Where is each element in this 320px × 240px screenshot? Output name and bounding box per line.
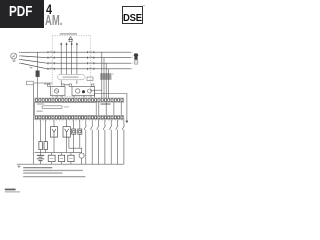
relay contact box R2: [58, 155, 64, 161]
label hexagon: [57, 75, 85, 80]
fuse holder right: [44, 142, 48, 150]
relay contact box R1: [48, 155, 55, 161]
negative bus: [17, 163, 124, 165]
title line 2: [45, 12, 62, 29]
logo TM mark: [143, 5, 145, 7]
pin 2: [66, 45, 68, 75]
notes text line 1: [23, 167, 52, 168]
arrowhead down: [126, 121, 129, 124]
wire phase L1 left segment: [20, 51, 47, 53]
neutral drop to fuse: [37, 52, 39, 71]
generator label text: [12, 60, 15, 61]
CT block: [100, 73, 111, 80]
relay contact box R3: [68, 155, 74, 161]
wire phase L1 main run: [47, 51, 131, 53]
relay wiring: [44, 80, 95, 98]
sender circle: [79, 153, 84, 158]
module text left: [37, 103, 44, 104]
aux box A2: [78, 129, 82, 134]
DSE logo: [122, 6, 144, 24]
dashed enclosure: [52, 36, 91, 97]
module body: [35, 102, 97, 115]
wire neutral left segment: [20, 63, 47, 69]
solenoid V2: [63, 127, 70, 137]
footer doc number: [5, 189, 16, 191]
notes text line 4: [23, 176, 85, 177]
lamp triangle: [69, 37, 73, 40]
terminal dots at generator: [18, 52, 21, 63]
footer url: [5, 191, 20, 192]
pin 3: [71, 42, 73, 75]
fuse F1: [36, 71, 39, 77]
solenoid V1: [50, 127, 57, 137]
generator G1: [11, 53, 17, 59]
wire battery to bus: [40, 161, 42, 165]
wire phase L2 left segment: [20, 56, 47, 58]
fuse holder left: [39, 142, 43, 150]
PDF badge: [0, 0, 44, 28]
left auxiliary box: [27, 81, 34, 85]
wires relays to bus: [52, 137, 82, 164]
pin arrowheads: [60, 43, 77, 45]
input switch wires: [84, 120, 125, 165]
right small box: [87, 77, 93, 81]
wire to charge arrow: [95, 94, 127, 121]
battery B1: [37, 155, 44, 160]
stub wire: [90, 89, 102, 91]
notes text line 2: [23, 170, 83, 171]
load icon dark arrow: [134, 53, 139, 59]
sense drop L3: [105, 63, 107, 98]
display bar: [42, 106, 62, 109]
wire phase L2 main run: [47, 57, 131, 59]
pin 1: [60, 45, 62, 75]
module top terminal strip: [35, 98, 124, 102]
wire phase L3 main run: [47, 62, 131, 64]
lamp body box: [69, 40, 72, 42]
notes text line 3: [23, 172, 62, 173]
relay K1 assembly: [51, 87, 66, 96]
aux box A1: [72, 129, 76, 134]
bottom strip terminals: [36, 116, 123, 119]
link contacts left cluster: [48, 51, 54, 70]
pin 4: [76, 45, 78, 75]
sense drop L1: [101, 52, 103, 98]
label text above lamp: [60, 33, 77, 34]
load icon lower box: [134, 60, 138, 64]
module text lower-left: [37, 111, 43, 112]
link contacts right cluster: [88, 51, 94, 70]
wires strip to solenoids: [54, 120, 80, 129]
title line 1: [46, 2, 52, 17]
horizontal link wire: [35, 152, 82, 154]
tick marks under bottom strip: [37, 120, 122, 121]
relay K2 assembly: [72, 87, 95, 96]
wire neutral main run: [47, 68, 131, 70]
line end marks: [131, 52, 134, 69]
sense drop L2: [103, 58, 105, 98]
wire fuse to terminal strip: [37, 77, 39, 98]
wire aux box to enclosure: [33, 82, 52, 84]
wires to fuse holders: [41, 120, 46, 156]
left rail 1: [33, 85, 35, 164]
wire phase L3 left segment: [20, 60, 47, 64]
top strip terminals: [36, 99, 123, 102]
module bottom terminal strip: [35, 115, 124, 119]
battery plus marker: [18, 165, 21, 168]
jumper wires between strips: [99, 102, 121, 115]
wires solenoids down: [54, 134, 80, 152]
sense drop N: [107, 69, 109, 98]
module text right: [101, 103, 111, 105]
